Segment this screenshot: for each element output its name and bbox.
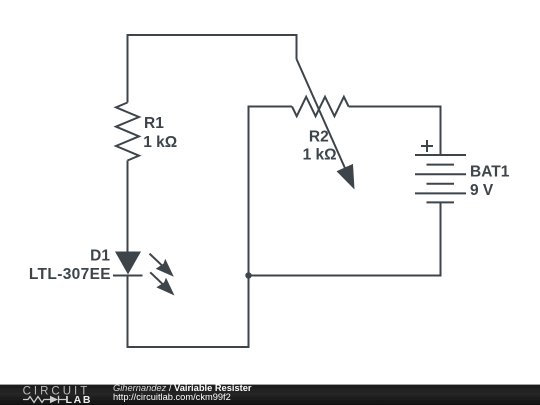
logo diode <box>50 396 58 403</box>
wire: R1 bottom to LED anode <box>127 161 129 253</box>
diode D1 (LED) <box>115 252 141 275</box>
footer bar <box>0 385 540 405</box>
svg-text:http://circuitlab.com/ckm99f2: http://circuitlab.com/ckm99f2 <box>113 392 231 402</box>
wire top: R1 top lead, top rail, stub down to pot wiper <box>128 35 297 103</box>
wire: R2 right lead to battery + <box>349 107 441 156</box>
resistor R2 (variable) <box>292 97 349 116</box>
svg-text:D1: D1 <box>90 247 110 264</box>
svg-text:R2: R2 <box>309 129 329 146</box>
logo resistor zigzag <box>23 397 50 403</box>
battery + sign <box>421 140 433 152</box>
svg-text:9 V: 9 V <box>470 182 494 199</box>
svg-text:1 kΩ: 1 kΩ <box>143 134 177 151</box>
svg-text:1 kΩ: 1 kΩ <box>303 147 337 164</box>
svg-text:BAT1: BAT1 <box>470 163 510 180</box>
wire: battery - down and left to junction <box>249 202 441 275</box>
svg-text:LAB: LAB <box>66 394 93 405</box>
junction node <box>245 272 251 278</box>
pot wiper arrow <box>297 59 355 190</box>
LED light arrow 2 <box>150 272 174 295</box>
LED light arrow 1 <box>150 254 174 277</box>
resistor R1 <box>116 103 139 161</box>
svg-text:R1: R1 <box>144 115 164 132</box>
svg-text:LTL-307EE: LTL-307EE <box>29 266 111 283</box>
battery BAT1 plates <box>415 154 466 156</box>
wire: LED cathode down, bottom rail, up to R2 left lead <box>128 107 293 348</box>
